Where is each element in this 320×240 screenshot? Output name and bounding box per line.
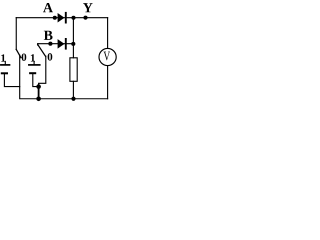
node rail-B junction dot — [71, 42, 75, 46]
node junction dot1 (batteries/contacts) — [36, 84, 41, 89]
label 1 (switch A) — [1, 54, 5, 61]
wire pole A vertical — [15, 18, 17, 50]
wire B horizontal line — [38, 43, 74, 45]
battery B long plate — [29, 64, 40, 66]
wire pole B stub — [37, 44, 39, 45]
wire rail vertical from top wire to resistor — [72, 18, 74, 58]
label 1 (switch B) — [31, 54, 35, 61]
battery A short plate — [2, 72, 7, 74]
diode D2 triangle (input B) — [58, 39, 65, 49]
diode D2 cathode bar — [65, 38, 67, 50]
voltmeter V letter — [104, 52, 111, 61]
label 0 (switch A) — [22, 53, 27, 60]
wire junction vertical dot1 to dot2 — [38, 87, 40, 99]
wire top horizontal A line to right corner — [16, 17, 107, 19]
resistor R rectangle — [70, 58, 77, 82]
wire battery B tick — [33, 61, 35, 64]
diode D1 triangle (input A) — [58, 13, 65, 23]
wire right vertical to voltmeter top — [107, 18, 109, 49]
label 0 (switch B) — [48, 53, 53, 60]
diode D1 cathode bar — [65, 12, 67, 24]
label Y — [83, 3, 93, 12]
wire 0-contact B vertical and elbow to junction — [39, 56, 46, 86]
label B — [44, 31, 53, 40]
wire battery A down and bottom-left run — [4, 73, 107, 98]
wire voltmeter bottom to ground wire — [107, 66, 109, 99]
voltmeter V circle — [99, 48, 116, 65]
wire battery A tick — [4, 61, 6, 64]
wire switch A lever — [16, 49, 21, 57]
wire battery B down and elbow to junction — [33, 73, 39, 86]
node Y dot — [83, 16, 87, 20]
node B dot — [48, 42, 52, 46]
label A — [43, 3, 53, 12]
battery A long plate — [1, 64, 10, 66]
wire resistor bottom to ground wire — [72, 81, 74, 98]
wire switch B lever — [38, 45, 46, 57]
battery B short plate — [30, 72, 35, 74]
node rail-top junction dot — [71, 16, 75, 20]
node resistor-ground dot — [71, 97, 75, 101]
node junction dot2 (ground wire) — [36, 97, 41, 102]
node A dot — [53, 16, 57, 20]
wire 0-contact A vertical — [19, 55, 21, 86]
